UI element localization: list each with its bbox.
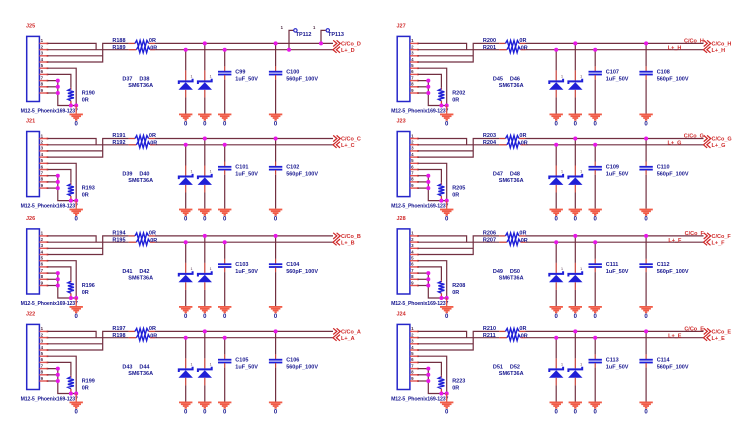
wire J26 pin 5 down to ground rail (48, 261, 77, 298)
off-page connector L+_H (704, 47, 711, 53)
svg-text:0R: 0R (452, 97, 459, 103)
ground under D51 (550, 402, 563, 409)
junction dot ground stem (74, 296, 78, 300)
wire J27 pin 6 down to R202 (418, 74, 441, 87)
ground at connector J23 (446, 201, 448, 209)
svg-text:0R: 0R (150, 333, 157, 339)
svg-text:R196: R196 (82, 283, 95, 289)
svg-text:M12-5_Phoenix169-1237: M12-5_Phoenix169-1237 (391, 204, 448, 210)
wire J23 pins 1,2 to R204 (418, 139, 467, 145)
svg-text:L+_G: L+_G (712, 143, 726, 149)
ground at connector J25 (75, 106, 77, 114)
TVS diode D44 (204, 331, 206, 358)
junction dot D42 (203, 234, 207, 238)
resistor R188 (0R, top) (129, 42, 135, 44)
resistor R208 (vertical, 0R) (440, 280, 442, 282)
capacitor C105 (224, 338, 226, 355)
wire J22 pins 1,2 to R198 (48, 331, 97, 337)
svg-text:R197: R197 (112, 326, 125, 332)
svg-text:L+_B: L+_B (341, 241, 355, 247)
svg-text:1: 1 (210, 267, 212, 271)
svg-text:D48: D48 (510, 172, 520, 178)
svg-text:1: 1 (210, 75, 212, 79)
svg-text:0R: 0R (149, 133, 156, 139)
svg-text:D44: D44 (139, 364, 150, 370)
test point TP112 (289, 30, 293, 49)
svg-text:J25: J25 (26, 24, 35, 30)
TVS diode D45 (555, 50, 557, 71)
wire J26 pins 7-9 bus to ground rail (48, 273, 77, 298)
svg-text:C/Co_E: C/Co_E (684, 326, 704, 332)
junction dot pin 9 (56, 379, 60, 383)
ground under C104 (269, 306, 282, 313)
TVS diode D41 (185, 242, 187, 263)
wire J24 pin 6 down to R223 (418, 362, 441, 375)
resistor R194 (0R, top) (129, 235, 135, 237)
junction dot pin 9 (426, 284, 430, 288)
svg-text:0R: 0R (150, 238, 157, 244)
svg-text:C/Co_G: C/Co_G (684, 133, 704, 139)
ground under D40 (198, 209, 211, 216)
svg-text:0R: 0R (149, 231, 156, 237)
svg-text:C99: C99 (235, 70, 245, 76)
wire R194 to port C/Co_B (top net) (155, 235, 333, 237)
capacitor C114 (645, 331, 647, 354)
wire R197 to port C/Co_A (top net) (155, 330, 333, 332)
svg-text:0R: 0R (452, 385, 459, 391)
wire R191 to port C/Co_C (top net) (155, 138, 333, 140)
junction dot R196 to rail (69, 296, 73, 300)
resistor R207 (0R, bottom) (499, 241, 507, 243)
resistor R193 (vertical, 0R) (70, 183, 72, 185)
junction dot pin 7 (426, 174, 430, 178)
wire J23 pins 3,4 to R203 (418, 150, 473, 152)
ground under D37 (179, 114, 192, 121)
ground under C99 (218, 114, 231, 121)
svg-text:M12-5_Phoenix169-1237: M12-5_Phoenix169-1237 (391, 396, 448, 402)
wire J22 pins 7-9 bus to ground rail (48, 369, 77, 394)
junction dot R208 to rail (439, 296, 443, 300)
capacitor C111 (594, 242, 596, 259)
svg-text:R200: R200 (483, 38, 496, 44)
capacitor C99 (224, 50, 226, 67)
junction dot pin 7 (426, 271, 430, 275)
resistor R223 (vertical, 0R) (440, 376, 442, 378)
svg-text:D40: D40 (139, 172, 149, 178)
wire R206 to port C/Co_F (top net) (526, 235, 704, 237)
svg-text:0R: 0R (519, 133, 526, 139)
svg-text:0R: 0R (452, 290, 459, 296)
junction dot pin 8 (56, 373, 60, 377)
junction dot ground stem (74, 199, 78, 203)
resistor R189 (0R, bottom) (129, 49, 137, 51)
svg-text:1: 1 (191, 363, 193, 367)
svg-text:0R: 0R (82, 193, 89, 199)
svg-text:D37: D37 (122, 76, 132, 82)
svg-text:R201: R201 (483, 45, 496, 51)
junction dot C112 (644, 234, 648, 238)
svg-text:L+_E: L+_E (668, 333, 682, 339)
capacitor C110 (645, 139, 647, 162)
svg-text:560pF_100V: 560pF_100V (657, 77, 689, 83)
wire R201 to port L+_H (bottom net) (526, 49, 704, 51)
svg-text:1: 1 (210, 363, 212, 367)
capacitor C102 (275, 139, 277, 162)
svg-text:M12-5_Phoenix169-1237: M12-5_Phoenix169-1237 (391, 301, 448, 307)
connector J26 pin stubs and pin numbers 1-9 (39, 235, 48, 286)
ground at connector J21 (75, 201, 77, 209)
wire J21 pins 1,2 to R192 (48, 139, 97, 145)
svg-text:C/Co_E: C/Co_E (712, 329, 732, 335)
resistor R196 (vertical, 0R) (70, 280, 72, 282)
junction dot C107 (593, 48, 597, 52)
connector J24 body (M12-5 Phoenix) (397, 324, 410, 389)
capacitor C112 (645, 236, 647, 259)
svg-text:L+_A: L+_A (341, 336, 355, 342)
junction dot pin 7 (56, 79, 60, 83)
svg-text:1uF_50V: 1uF_50V (235, 269, 258, 275)
ground at connector J28 (446, 298, 448, 306)
junction dot D46 (573, 41, 577, 45)
svg-text:0R: 0R (519, 326, 526, 332)
svg-text:560pF_100V: 560pF_100V (286, 77, 318, 83)
svg-text:D51: D51 (493, 364, 503, 370)
ground at connector J24 (446, 394, 448, 402)
ground under C112 (639, 306, 652, 313)
resistor R210 (0R, top) (499, 330, 505, 332)
wire J24 pins 3,4 to R210 (418, 343, 473, 345)
ground under C100 (269, 114, 282, 121)
junction dot C109 (593, 143, 597, 147)
svg-text:0R: 0R (149, 326, 156, 332)
connector J25 pin stubs and pin numbers 1-9 (39, 43, 48, 94)
ground under C107 (589, 114, 602, 121)
wire J25 pins 1,2 to R189 (48, 43, 97, 49)
junction dot pin 8 (426, 180, 430, 184)
off-page connector L+_B (333, 239, 340, 245)
junction dot ground stem (74, 104, 78, 108)
junction dot D38 (203, 41, 207, 45)
junction dot D48 (573, 137, 577, 141)
wire J28 pins 1,2 to R207 (418, 236, 467, 242)
junction dot C99 (223, 48, 227, 52)
svg-text:D42: D42 (139, 269, 149, 275)
junction dot D44 (203, 329, 207, 333)
junction dot C103 (223, 240, 227, 244)
wire J25 pins 7-9 bus to ground rail (48, 81, 77, 106)
connector J26 body (M12-5 Phoenix) (27, 229, 40, 294)
junction dot R199 to rail (69, 392, 73, 396)
svg-text:J22: J22 (26, 312, 35, 318)
svg-text:C107: C107 (606, 70, 619, 76)
svg-text:1: 1 (191, 267, 193, 271)
junction dot pin 7 (426, 79, 430, 83)
svg-text:R189: R189 (112, 45, 125, 51)
svg-text:0R: 0R (519, 38, 526, 44)
junction dot C102 (274, 137, 278, 141)
ground at connector J27 (446, 106, 448, 114)
junction dot TP113 (319, 41, 323, 45)
junction dot pin 8 (56, 180, 60, 184)
junction dot pin 8 (56, 277, 60, 281)
svg-text:C111: C111 (606, 262, 619, 268)
svg-text:C104: C104 (286, 262, 300, 268)
svg-text:1: 1 (580, 75, 582, 79)
off-page connector L+_D (333, 47, 340, 53)
resistor R190 (vertical, 0R) (70, 88, 72, 90)
junction dot D52 (573, 329, 577, 333)
junction dot pin 9 (426, 186, 430, 190)
junction dot D37 (184, 48, 188, 52)
svg-text:C110: C110 (657, 165, 670, 171)
TVS diode D48 (574, 139, 576, 166)
wire J23 pin 5 down to ground rail (418, 163, 447, 200)
ground under D44 (198, 402, 211, 409)
svg-text:560pF_100V: 560pF_100V (657, 172, 689, 178)
resistor R203 (0R, top) (499, 138, 505, 140)
ground under D46 (569, 114, 582, 121)
resistor R195 (0R, bottom) (129, 241, 137, 243)
svg-text:560pF_100V: 560pF_100V (286, 365, 318, 371)
connector J24 pin stubs and pin numbers 1-9 (410, 331, 419, 382)
svg-text:C/Co_G: C/Co_G (712, 137, 732, 143)
svg-text:560pF_100V: 560pF_100V (286, 172, 318, 178)
junction dot ground stem (445, 296, 449, 300)
resistor R201 (0R, bottom) (499, 49, 507, 51)
wire J24 pin 5 down to ground rail (418, 356, 447, 393)
wire R192 to port L+_C (bottom net) (155, 144, 333, 146)
junction dot ground stem (445, 392, 449, 396)
ground under C114 (639, 402, 652, 409)
junction dot pin 8 (56, 85, 60, 89)
junction dot C100 (274, 41, 278, 45)
wire J27 pins 3,4 to R200 (418, 55, 473, 57)
svg-text:TP112: TP112 (296, 32, 312, 38)
TVS diode D47 (555, 145, 557, 166)
svg-text:R206: R206 (483, 231, 496, 237)
junction dot D51 (554, 336, 558, 340)
junction dot D50 (573, 234, 577, 238)
capacitor C106 (275, 331, 277, 354)
off-page connector C/Co_A (333, 328, 340, 334)
ground under C109 (589, 209, 602, 216)
connector J21 body (M12-5 Phoenix) (27, 132, 40, 197)
svg-text:J28: J28 (397, 216, 406, 222)
svg-text:C/Co_H: C/Co_H (712, 41, 732, 47)
off-page connector C/Co_B (333, 233, 340, 239)
ground under C113 (589, 402, 602, 409)
junction dot C104 (274, 234, 278, 238)
junction dot C105 (223, 336, 227, 340)
svg-text:0R: 0R (521, 333, 528, 339)
svg-text:L+_D: L+_D (341, 48, 355, 54)
svg-text:SM6T36A: SM6T36A (128, 178, 153, 184)
connector J27 body (M12-5 Phoenix) (397, 36, 410, 101)
ground under D38 (198, 114, 211, 121)
svg-text:1: 1 (561, 75, 563, 79)
off-page connector L+_G (704, 142, 711, 148)
connector J22 pin stubs and pin numbers 1-9 (39, 331, 48, 382)
TVS diode D51 (555, 338, 557, 359)
junction dot C106 (274, 329, 278, 333)
wire J28 pin 5 down to ground rail (418, 261, 447, 298)
resistor R202 (vertical, 0R) (440, 88, 442, 90)
svg-text:C100: C100 (286, 70, 299, 76)
wire R195 to port L+_B (bottom net) (155, 241, 333, 243)
TVS diode D50 (574, 236, 576, 263)
junction dot pin 9 (426, 379, 430, 383)
junction dot ground stem (445, 199, 449, 203)
svg-text:1: 1 (561, 363, 563, 367)
ground under C106 (269, 402, 282, 409)
svg-text:M12-5_Phoenix169-1237: M12-5_Phoenix169-1237 (21, 301, 78, 307)
svg-text:C114: C114 (657, 358, 671, 364)
ground under C102 (269, 209, 282, 216)
wire J24 pins 7-9 bus to ground rail (418, 369, 447, 394)
TVS diode D49 (555, 242, 557, 263)
off-page connector L+_E (704, 335, 711, 341)
junction dot D49 (554, 240, 558, 244)
svg-text:0R: 0R (521, 238, 528, 244)
svg-text:0R: 0R (519, 231, 526, 237)
svg-text:D43: D43 (122, 364, 132, 370)
ground under D47 (550, 209, 563, 216)
svg-text:1uF_50V: 1uF_50V (606, 172, 629, 178)
svg-text:0R: 0R (521, 45, 528, 51)
svg-text:0R: 0R (82, 97, 89, 103)
junction dot pin 7 (56, 271, 60, 275)
capacitor C113 (594, 338, 596, 355)
svg-text:R207: R207 (483, 238, 496, 244)
resistor R211 (0R, bottom) (499, 337, 507, 339)
svg-text:0R: 0R (150, 140, 157, 146)
svg-text:R192: R192 (112, 140, 125, 146)
junction dot R193 to rail (69, 199, 73, 203)
svg-text:R202: R202 (452, 91, 465, 97)
svg-text:L+_G: L+_G (667, 141, 681, 147)
svg-text:C112: C112 (657, 262, 670, 268)
svg-text:D49: D49 (493, 269, 503, 275)
svg-text:1uF_50V: 1uF_50V (606, 365, 629, 371)
wire J28 pins 3,4 to R206 (418, 247, 473, 249)
svg-text:M12-5_Phoenix169-1237: M12-5_Phoenix169-1237 (21, 204, 78, 210)
svg-text:L+_F: L+_F (712, 241, 726, 247)
wire J25 pin 5 down to ground rail (48, 68, 77, 105)
ground under D50 (569, 306, 582, 313)
svg-text:SM6T36A: SM6T36A (499, 371, 524, 377)
wire R210 to port C/Co_E (top net) (526, 330, 704, 332)
svg-text:C/Co_B: C/Co_B (341, 234, 361, 240)
svg-text:0R: 0R (452, 193, 459, 199)
svg-text:560pF_100V: 560pF_100V (657, 269, 689, 275)
wire J26 pin 6 down to R196 (48, 267, 71, 280)
resistor R205 (vertical, 0R) (440, 183, 442, 185)
connector J27 pin stubs and pin numbers 1-9 (410, 43, 419, 94)
junction dot pin 7 (426, 367, 430, 371)
connector J23 pin stubs and pin numbers 1-9 (410, 138, 419, 189)
svg-text:C108: C108 (657, 70, 670, 76)
ground under D45 (550, 114, 563, 121)
wire J26 pins 3,4 to R194 (48, 247, 103, 249)
svg-text:0R: 0R (82, 385, 89, 391)
svg-text:R190: R190 (82, 91, 95, 97)
svg-text:D52: D52 (510, 364, 520, 370)
wire J27 pins 7-9 bus to ground rail (418, 81, 447, 106)
wire J21 pins 7-9 bus to ground rail (48, 176, 77, 201)
svg-text:J21: J21 (26, 119, 35, 125)
junction dot TP112 (287, 48, 291, 52)
svg-text:SM6T36A: SM6T36A (499, 276, 524, 282)
wire R189 to port L+_D (bottom net) (155, 49, 333, 51)
wire R211 to port L+_E (bottom net) (526, 337, 704, 339)
resistor R191 (0R, top) (129, 138, 135, 140)
wire J23 pins 7-9 bus to ground rail (418, 176, 447, 201)
svg-text:1: 1 (561, 267, 563, 271)
ground under D42 (198, 306, 211, 313)
ground under D39 (179, 209, 192, 216)
svg-text:R193: R193 (82, 186, 95, 192)
junction dot R223 to rail (439, 392, 443, 396)
svg-text:D46: D46 (510, 76, 520, 82)
junction dot pin 7 (56, 174, 60, 178)
ground under C105 (218, 402, 231, 409)
svg-text:R198: R198 (112, 333, 125, 339)
resistor R206 (0R, top) (499, 235, 505, 237)
ground under D49 (550, 306, 563, 313)
junction dot D40 (203, 137, 207, 141)
svg-text:TP113: TP113 (328, 32, 344, 38)
svg-text:R205: R205 (452, 186, 465, 192)
svg-text:1uF_50V: 1uF_50V (606, 269, 629, 275)
svg-text:1: 1 (561, 170, 563, 174)
svg-text:C/Co_F: C/Co_F (685, 231, 705, 237)
svg-text:M12-5_Phoenix169-1237: M12-5_Phoenix169-1237 (391, 108, 448, 114)
capacitor C104 (275, 236, 277, 259)
wire J22 pins 3,4 to R197 (48, 343, 103, 345)
off-page connector C/Co_E (704, 328, 711, 334)
TVS diode D46 (574, 43, 576, 70)
junction dot D41 (184, 240, 188, 244)
svg-text:1: 1 (580, 170, 582, 174)
junction dot D39 (184, 143, 188, 147)
svg-text:1: 1 (580, 267, 582, 271)
svg-text:L+_E: L+_E (712, 336, 726, 342)
off-page connector L+_C (333, 142, 340, 148)
svg-text:J24: J24 (397, 312, 407, 318)
TVS diode D38 (204, 43, 206, 70)
svg-text:1uF_50V: 1uF_50V (235, 365, 258, 371)
svg-text:J27: J27 (397, 24, 406, 30)
svg-text:R188: R188 (112, 38, 125, 44)
svg-text:1uF_50V: 1uF_50V (235, 77, 258, 83)
capacitor C109 (594, 145, 596, 162)
svg-text:L+_H: L+_H (668, 45, 682, 51)
svg-text:C/Co_F: C/Co_F (712, 234, 732, 240)
wire J25 pins 3,4 to R188 (48, 55, 103, 57)
wire J22 pin 6 down to R199 (48, 362, 71, 375)
wire J26 pins 1,2 to R195 (48, 236, 97, 242)
svg-text:SM6T36A: SM6T36A (128, 83, 153, 89)
junction dot pin 7 (56, 367, 60, 371)
svg-text:1: 1 (580, 363, 582, 367)
ground under D52 (569, 402, 582, 409)
svg-text:R204: R204 (483, 140, 497, 146)
junction dot pin 8 (426, 85, 430, 89)
connector J22 body (M12-5 Phoenix) (27, 324, 40, 389)
junction dot D45 (554, 48, 558, 52)
TVS diode D52 (574, 331, 576, 358)
ground at connector J26 (75, 298, 77, 306)
